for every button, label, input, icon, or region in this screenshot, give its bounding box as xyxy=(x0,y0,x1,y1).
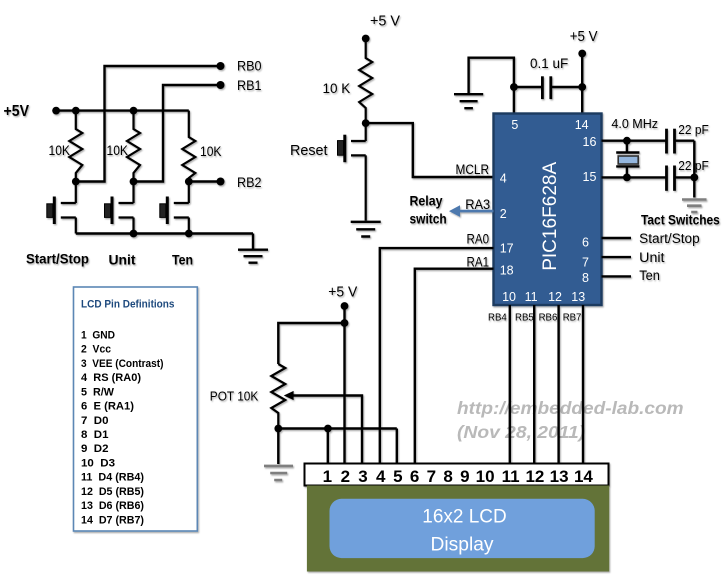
switch S2 Unit xyxy=(105,182,134,234)
svg-text:Unit: Unit xyxy=(109,253,137,268)
svg-text:switch: switch xyxy=(410,210,447,226)
svg-text:Display: Display xyxy=(431,534,494,556)
svg-text:RB4: RB4 xyxy=(488,312,507,324)
svg-text:8: 8 xyxy=(443,467,452,486)
svg-text:5 R/W: 5 R/W xyxy=(81,386,114,398)
wire RA1 net xyxy=(415,269,494,464)
svg-text:1: 1 xyxy=(323,467,332,486)
svg-text:14 D7 (RB7): 14 D7 (RB7) xyxy=(81,514,144,526)
watermark xyxy=(457,398,684,442)
node crystal top junction xyxy=(623,137,631,145)
capacitor C2 22pF xyxy=(667,129,695,154)
wire pin6 stub xyxy=(602,237,632,239)
svg-text:2 Vcc: 2 Vcc xyxy=(81,344,111,356)
svg-text:4 RS (RA0): 4 RS (RA0) xyxy=(81,372,141,384)
switch S3 Ten xyxy=(160,182,189,234)
svg-text:RA0: RA0 xyxy=(467,232,490,247)
svg-text:9: 9 xyxy=(460,467,469,486)
wire to LCD pin1 xyxy=(327,429,329,464)
node crystal bottom junction xyxy=(623,174,631,182)
resistor R3 10K xyxy=(182,111,195,182)
node R1 bottom junction xyxy=(72,178,80,186)
svg-text:4.0 MHz: 4.0 MHz xyxy=(611,116,658,131)
svg-text:RB5: RB5 xyxy=(515,312,534,324)
LCD module body xyxy=(307,486,609,572)
svg-text:12: 12 xyxy=(548,290,562,304)
node pot bottom junction xyxy=(274,425,282,433)
svg-text:7: 7 xyxy=(582,255,589,269)
svg-text:11: 11 xyxy=(525,290,538,304)
ground G1 switches xyxy=(238,234,268,263)
svg-text:7: 7 xyxy=(427,467,436,486)
svg-text:MCLR: MCLR xyxy=(456,162,490,177)
LCD header connector xyxy=(305,464,609,487)
svg-text:Unit: Unit xyxy=(639,250,665,265)
wire ground rail pot xyxy=(278,427,397,429)
svg-text:10K: 10K xyxy=(200,143,222,159)
svg-text:13: 13 xyxy=(550,467,569,486)
node RB1 terminal xyxy=(217,81,225,89)
svg-text:1 GND: 1 GND xyxy=(81,329,115,341)
wire RA0 net xyxy=(380,248,494,463)
svg-text:Start/Stop: Start/Stop xyxy=(639,231,700,246)
svg-text:LCD Pin Definitions: LCD Pin Definitions xyxy=(81,299,175,311)
wire RB0 net xyxy=(76,66,221,182)
resistor R4 10K xyxy=(359,39,372,124)
svg-text:6: 6 xyxy=(582,236,589,250)
node R2 top junction xyxy=(130,107,138,115)
ground G4 crystal (grey) xyxy=(682,200,707,213)
label Relay switch xyxy=(410,193,447,227)
svg-text:8 D1: 8 D1 xyxy=(81,429,109,441)
svg-text:+5 V: +5 V xyxy=(570,28,598,45)
wire pin7 stub xyxy=(602,256,632,258)
svg-text:7 D0: 7 D0 xyxy=(81,415,109,427)
svg-text:14: 14 xyxy=(575,118,589,132)
node S3 rail junction xyxy=(185,230,193,238)
wire RA3 arrow (relay) xyxy=(449,205,494,217)
node rail start dot xyxy=(52,107,60,115)
wire RB6 net xyxy=(557,305,559,464)
wire caps to ground xyxy=(693,141,695,198)
wire +5V to pin14 xyxy=(581,54,583,114)
svg-text:Ten: Ten xyxy=(639,268,660,283)
wire +5V to LCD pin2 xyxy=(343,306,345,464)
crystal X1 4MHz xyxy=(616,141,639,178)
node C1 left junction xyxy=(510,83,518,91)
svg-text:Relay: Relay xyxy=(410,193,443,209)
svg-text:6: 6 xyxy=(410,467,419,486)
ground G5 pot (grey) xyxy=(264,466,293,480)
svg-text:14: 14 xyxy=(574,467,593,486)
svg-text:RB2: RB2 xyxy=(237,175,262,190)
svg-text:4: 4 xyxy=(376,467,386,486)
LCD pin definitions box xyxy=(74,287,198,531)
wire pot wiper to LCD pin3 xyxy=(284,391,362,464)
svg-text:13: 13 xyxy=(571,290,585,304)
wire RB5 net xyxy=(533,305,535,464)
svg-text:9 D2: 9 D2 xyxy=(81,443,109,455)
wire RB7 net xyxy=(582,305,584,464)
LCD screen panel xyxy=(330,499,595,558)
switch S4 Reset xyxy=(338,123,366,220)
svg-text:(Nov 28, 2011): (Nov 28, 2011) xyxy=(457,422,585,442)
node C1 right junction xyxy=(578,83,586,91)
capacitor C1 0.1uF xyxy=(514,76,582,99)
capacitor C3 22pF xyxy=(667,166,695,191)
svg-text:PIC16F628A: PIC16F628A xyxy=(539,162,561,271)
node R1 top junction xyxy=(72,107,80,115)
svg-text:3 VEE (Contrast): 3 VEE (Contrast) xyxy=(81,358,164,370)
node pot top junction xyxy=(341,319,349,327)
wire RB1 net xyxy=(134,85,221,182)
node reset junction xyxy=(362,119,370,127)
svg-text:RB6: RB6 xyxy=(539,312,558,324)
wire +5V rail xyxy=(56,109,189,111)
wire bottom ground rail xyxy=(76,232,253,234)
wire pin5 to ground xyxy=(469,58,514,114)
svg-text:POT 10K: POT 10K xyxy=(210,389,259,404)
wire MCLR net xyxy=(366,123,494,177)
svg-text:RB0: RB0 xyxy=(237,59,262,74)
IC U1 PIC16F628A microcontroller xyxy=(494,114,602,306)
svg-text:+5 V: +5 V xyxy=(370,13,400,30)
resistor R1 10K xyxy=(69,111,82,182)
wire pin16 net xyxy=(602,139,666,141)
svg-text:18: 18 xyxy=(500,263,514,277)
svg-text:Tact Switches: Tact Switches xyxy=(641,213,720,228)
svg-text:5: 5 xyxy=(511,118,518,132)
svg-text:15: 15 xyxy=(583,170,597,184)
node R2 bottom junction xyxy=(130,178,138,186)
svg-text:12: 12 xyxy=(525,467,544,486)
svg-text:8: 8 xyxy=(582,271,589,285)
node S2 rail junction xyxy=(130,230,138,238)
ground G3 pin5 xyxy=(454,94,483,108)
svg-text:4: 4 xyxy=(500,172,507,186)
node caps junction xyxy=(690,174,698,182)
wire RB4 net xyxy=(509,305,511,464)
svg-text:11: 11 xyxy=(502,467,520,486)
ground G2 reset xyxy=(351,222,381,237)
svg-text:3: 3 xyxy=(358,467,367,486)
svg-text:2: 2 xyxy=(500,207,507,221)
svg-text:Start/Stop: Start/Stop xyxy=(26,252,89,267)
wire to LCD pin5 xyxy=(396,429,398,464)
svg-text:2: 2 xyxy=(341,467,350,486)
svg-text:10K: 10K xyxy=(49,142,71,158)
svg-text:0.1 uF: 0.1 uF xyxy=(530,55,568,71)
node RB0 terminal xyxy=(217,62,225,70)
svg-text:RA3: RA3 xyxy=(465,197,490,212)
svg-text:+5V: +5V xyxy=(4,103,30,120)
wire pin8 stub xyxy=(602,275,632,277)
svg-text:Reset: Reset xyxy=(290,142,328,159)
wire pot to ground xyxy=(277,429,279,465)
svg-text:+5 V: +5 V xyxy=(328,284,357,301)
wire RB2 net xyxy=(189,180,221,182)
svg-text:16: 16 xyxy=(583,135,597,149)
svg-text:6 E (RA1): 6 E (RA1) xyxy=(81,401,134,413)
svg-text:RA1: RA1 xyxy=(467,254,490,269)
svg-text:10 D3: 10 D3 xyxy=(81,457,115,469)
svg-text:RB1: RB1 xyxy=(237,78,262,93)
svg-text:10K: 10K xyxy=(107,142,129,158)
node LCD pin1 junction xyxy=(324,425,332,433)
svg-text:5: 5 xyxy=(393,467,402,486)
node RB2 terminal xyxy=(217,178,225,186)
svg-text:13 D6 (RB6): 13 D6 (RB6) xyxy=(81,500,144,512)
node R3 bottom junction xyxy=(185,178,193,186)
svg-text:22 pF: 22 pF xyxy=(678,123,709,137)
svg-text:17: 17 xyxy=(500,242,514,256)
svg-text:10: 10 xyxy=(476,467,495,486)
svg-text:RB7: RB7 xyxy=(563,312,582,324)
svg-text:12 D5 (RB5): 12 D5 (RB5) xyxy=(81,486,144,498)
svg-text:Ten: Ten xyxy=(172,253,193,268)
svg-text:10 K: 10 K xyxy=(323,80,351,96)
svg-text:http://embedded-lab.com: http://embedded-lab.com xyxy=(457,398,684,418)
svg-text:16x2 LCD: 16x2 LCD xyxy=(422,506,506,528)
potentiometer R5 POT 10K xyxy=(271,364,285,429)
wire pot top branch xyxy=(278,323,344,364)
wire pin15 net xyxy=(602,176,666,178)
resistor R2 10K xyxy=(127,111,140,182)
svg-text:11 D4 (RB4): 11 D4 (RB4) xyxy=(81,472,144,484)
svg-text:10: 10 xyxy=(502,290,516,304)
switch S1 Start/Stop xyxy=(47,182,76,234)
